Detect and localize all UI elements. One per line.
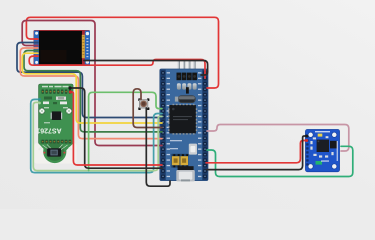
wire maroon TFT CS xyxy=(22,21,162,146)
wire yellow TFT SCK xyxy=(22,53,162,123)
pushbutton S1 xyxy=(138,98,149,110)
sensor breakout board U2 xyxy=(305,129,339,171)
wire dark-teal TFT RST xyxy=(17,43,162,118)
svg-text:AS7261: AS7261 xyxy=(36,127,61,134)
wire salmon TFT DC xyxy=(20,48,162,139)
wire brown button S1 xyxy=(133,89,162,128)
wire pink U1 to U2 xyxy=(207,125,349,152)
wire red U1 to U2 VCC xyxy=(206,141,306,163)
wire red VCC TFT to U1 right top xyxy=(26,17,218,88)
node AS7261 VCC pin xyxy=(69,90,72,93)
wire red TFT LED xyxy=(29,56,205,78)
wire black TFT GND xyxy=(84,61,208,76)
node AS7261 SDA pin xyxy=(38,102,41,105)
TFT LCD display module LCD1 xyxy=(34,30,91,66)
wire light-green AS7261 SDA loop xyxy=(33,102,162,170)
wire black U1 to U2 GND xyxy=(207,136,306,170)
node AS7261 SCL pin xyxy=(38,98,41,101)
AS7261 spectral sensor board U3 xyxy=(34,84,77,164)
node AS7261 GND pin xyxy=(68,86,71,89)
wire black AS7261 GND xyxy=(70,88,162,168)
wire green jumper U1 xyxy=(89,92,162,170)
wire green TFT MOSI xyxy=(24,51,162,132)
STM32 Blue Pill board U1 xyxy=(160,60,208,182)
wire red AS7261 VCC xyxy=(71,92,163,165)
wire green U1 to U2 xyxy=(207,146,353,176)
node U2 GND pin xyxy=(305,135,308,138)
wire black button S1 GND xyxy=(146,108,170,186)
node U2 VCC pin xyxy=(305,139,308,142)
wire teal AS7261 SCL loop xyxy=(31,99,162,172)
